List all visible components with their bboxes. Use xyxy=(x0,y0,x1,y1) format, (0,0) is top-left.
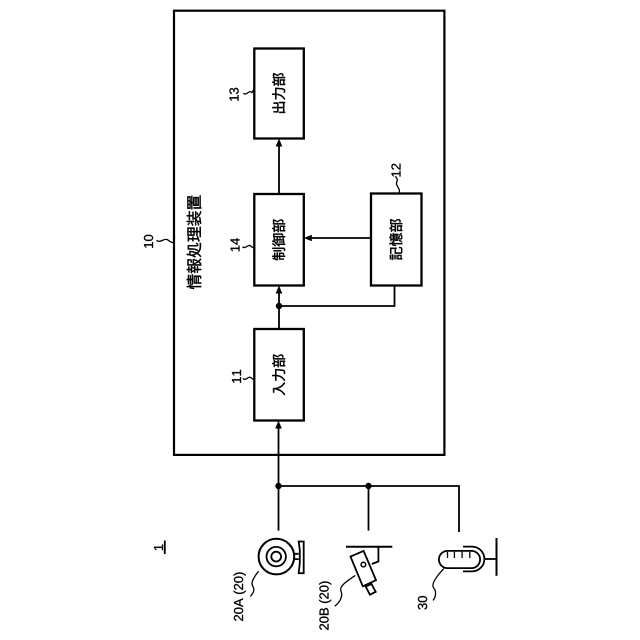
label 13 xyxy=(229,88,238,101)
box 14: control unit 制御部 xyxy=(254,194,303,286)
wire: arrow input to control xyxy=(278,292,280,329)
title text 情報処理装置 xyxy=(187,195,202,289)
label 11 xyxy=(232,370,241,383)
junction dot bus top xyxy=(275,483,281,489)
wire: arrow storage to control xyxy=(311,237,372,239)
wire: arrow external bus into input unit xyxy=(278,427,280,486)
leader squiggle for 12 xyxy=(395,176,399,193)
label 10 xyxy=(144,235,153,248)
junction dot on input-control wire xyxy=(276,303,282,309)
camera 20A: middle lens circle xyxy=(267,547,286,566)
label 20A (20) xyxy=(234,572,246,620)
wire: stub to device 20B xyxy=(368,486,370,531)
camera 20A: base plate xyxy=(299,542,304,574)
microphone 30: capsule head xyxy=(439,551,480,568)
figure label 1 xyxy=(154,545,163,551)
box 13: output unit 出力部 xyxy=(254,49,303,139)
device 20B: mount bracket xyxy=(372,547,379,564)
microphone 30: grill ticks xyxy=(448,552,470,558)
wire: arrow control to output xyxy=(278,145,280,194)
wire: stub to camera 20A xyxy=(278,486,280,531)
device 20B: mount bar xyxy=(346,546,392,548)
wire: storage branch to junction xyxy=(279,286,395,307)
label 30 xyxy=(418,596,427,609)
microphone 30: base bar xyxy=(496,538,498,576)
leader squiggle for 14 xyxy=(243,245,256,248)
leader squiggle for 20A xyxy=(250,571,258,596)
device 20B: lens dot xyxy=(361,562,366,567)
box 12: storage unit 記憶部 xyxy=(371,194,422,286)
outer rectangle: information processing device 10 xyxy=(174,11,444,455)
label 20B (20) xyxy=(319,581,331,629)
camera 20A: inner lens circle xyxy=(271,552,281,562)
leader squiggle for 11 xyxy=(243,377,254,380)
leader squiggle for 20B xyxy=(335,575,356,606)
microphone 30: holder U xyxy=(463,547,484,572)
wire: bus vertical with corner to mic stub xyxy=(279,486,460,532)
label 14 xyxy=(231,238,240,251)
leader squiggle for 13 xyxy=(243,89,254,94)
camera 20A: outer circle xyxy=(259,539,295,575)
label 12 xyxy=(391,164,400,177)
box 11: input unit 入力部 xyxy=(254,329,303,421)
underline of figure label 1 xyxy=(164,541,166,555)
leader squiggle for 30 xyxy=(433,569,444,601)
device 20B: body xyxy=(351,551,377,586)
camera 20A: neck stub xyxy=(294,554,299,559)
junction dot bus middle xyxy=(365,483,371,489)
device 20B: bottom tab xyxy=(366,584,376,595)
leader squiggle for 10 xyxy=(157,239,175,242)
microphone 30: stem xyxy=(484,558,495,560)
